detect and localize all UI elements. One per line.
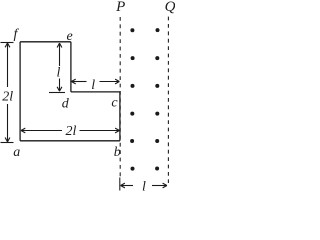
dimension l (between d and c, horizontal) [71, 79, 119, 84]
field dot r3c2 [155, 84, 159, 88]
dimension l (between e and d, vertical) [49, 43, 65, 92]
field dot r2c2 [155, 56, 159, 60]
dimension 2l (between a and b, horizontal) [21, 128, 119, 133]
field dot r6c2 [155, 167, 159, 171]
svg-text:P: P [115, 0, 125, 15]
field dot r6c1 [131, 167, 135, 171]
svg-text:c: c [111, 96, 118, 111]
field dot r1c1 [130, 28, 134, 32]
svg-text:e: e [66, 29, 72, 44]
field dot r4c2 [155, 112, 159, 116]
field dots (B out of page) [130, 28, 159, 171]
field boundary line P bottom tick [119, 178, 121, 191]
field dot r5c2 [155, 139, 159, 143]
field dot r1c2 [156, 28, 160, 32]
svg-text:Q: Q [165, 0, 175, 15]
svg-text:a: a [13, 145, 20, 160]
field dot r4c1 [130, 112, 134, 116]
field boundary line Q (dashed) [167, 17, 169, 183]
svg-text:b: b [114, 145, 121, 160]
field dot r5c1 [130, 139, 134, 143]
field dot r3c1 [131, 84, 135, 88]
svg-text:f: f [13, 27, 19, 42]
field boundary line P (dashed) [119, 17, 121, 177]
wire f-e (top edge of loop) [20, 41, 71, 43]
wire a-f (left edge of loop) [19, 42, 21, 141]
dimension l (between P and Q, bottom) [121, 183, 167, 188]
wire a-b (bottom edge of loop) [20, 140, 120, 142]
svg-text:l: l [56, 65, 60, 80]
dimension 2l (left side, vertical, between levels of f and a) [1, 43, 14, 143]
svg-text:l: l [91, 78, 95, 93]
field dot r2c1 [131, 56, 135, 60]
wire e-d [70, 42, 72, 92]
svg-text:d: d [62, 97, 70, 112]
svg-text:l: l [142, 179, 146, 194]
wire c-b [119, 92, 121, 141]
wire d-c [71, 91, 120, 93]
svg-text:2l: 2l [66, 124, 77, 139]
svg-text:2l: 2l [2, 90, 13, 105]
